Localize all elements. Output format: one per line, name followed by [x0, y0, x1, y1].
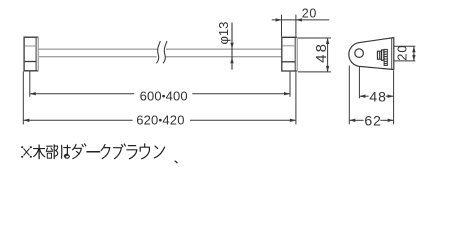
side view inner plate line	[391, 38, 393, 69]
dim 20 side: extension lines	[394, 45, 415, 47]
screw flange	[382, 50, 384, 60]
note text: u (katakana)	[140, 144, 149, 159]
svg-text:620•420: 620•420	[136, 113, 184, 128]
phi13 dimension line	[230, 23, 233, 70]
note text: kome mark	[21, 146, 32, 158]
svg-text:48: 48	[369, 88, 386, 104]
svg-text:φ13: φ13	[216, 22, 231, 45]
break line 1	[156, 41, 160, 63]
note text: bu (katakana)	[114, 144, 126, 159]
note text: ki (tree)	[34, 145, 45, 159]
dim 48 side: extension lines	[358, 67, 360, 99]
dim 62 side: dimension line	[349, 119, 393, 122]
dim 20 top: dimension line with outside arrows	[272, 18, 330, 21]
screw threaded shank	[384, 49, 387, 65]
svg-text:20: 20	[395, 45, 410, 61]
dim 620x420: extension lines	[22, 72, 24, 125]
screw head	[377, 51, 381, 59]
svg-text:62: 62	[364, 112, 381, 128]
note text: da	[73, 144, 86, 159]
side view bracket outline	[349, 38, 394, 70]
dim 600x400: extension lines	[29, 72, 31, 97]
svg-text:48: 48	[313, 42, 330, 63]
dim 20 side: dimension line	[412, 46, 415, 61]
svg-text:600•400: 600•400	[140, 89, 188, 104]
note text: bu (part)	[46, 145, 57, 159]
left bracket cap	[24, 37, 38, 71]
dim 48 right of cap: extension lines	[298, 37, 331, 39]
note text: ha	[62, 145, 71, 158]
small comma mark bottom	[175, 161, 178, 163]
dim 48 side: dimension line	[359, 95, 393, 98]
side view bar hole	[355, 49, 364, 58]
dim 62 side: extension line left	[348, 66, 350, 125]
note text: ra	[127, 146, 137, 159]
break line 2	[163, 41, 167, 63]
right bracket cap	[282, 37, 297, 72]
svg-text:20: 20	[302, 6, 317, 20]
note text: long bar	[87, 151, 100, 153]
dim 48 right of cap: dimension line	[326, 38, 329, 72]
bar (right segment)	[166, 49, 282, 57]
dim 620x420: dimension line	[23, 119, 296, 122]
bar (left segment)	[39, 49, 157, 57]
note text: n (katakana)	[154, 146, 164, 158]
dim 600x400: dimension line	[30, 92, 290, 95]
dim 20 top: extension lines	[281, 15, 283, 37]
note text: ku	[101, 145, 110, 159]
screw head mid line	[378, 52, 380, 59]
